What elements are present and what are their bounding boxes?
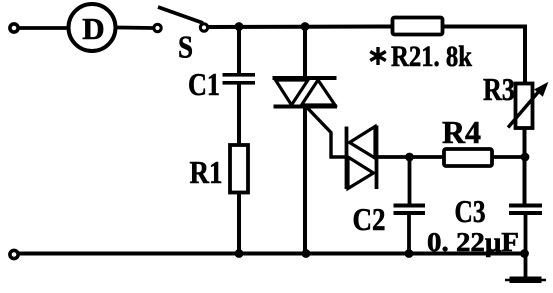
wire <box>407 215 411 254</box>
wire <box>237 27 241 74</box>
wire <box>116 26 153 30</box>
diac VD <box>347 126 377 190</box>
capacitor C2 <box>394 204 426 216</box>
wire <box>523 128 527 204</box>
capacitor C1 <box>223 73 256 85</box>
svg-text:C2: C2 <box>353 201 386 237</box>
terminal top-left <box>10 24 18 32</box>
switch S <box>154 7 208 32</box>
node junction top B <box>301 22 310 31</box>
potentiometer R3 <box>508 84 547 129</box>
svg-text:S: S <box>178 29 193 65</box>
svg-text:C1: C1 <box>188 66 220 102</box>
ground <box>505 277 546 284</box>
wire <box>523 25 527 84</box>
wire <box>524 215 528 278</box>
svg-text:D: D <box>82 11 104 46</box>
node junction bottom 4 <box>520 249 529 258</box>
svg-text:C3: C3 <box>455 193 486 229</box>
node junction bottom 3 <box>405 249 414 258</box>
load D <box>69 4 116 51</box>
wire <box>19 26 69 30</box>
resistor R4 <box>444 149 492 166</box>
node junction bottom 1 <box>235 249 244 258</box>
svg-text:R1: R1 <box>190 154 223 190</box>
wire <box>492 155 526 159</box>
wire <box>408 157 412 204</box>
resistor R2 <box>393 18 443 35</box>
wire <box>378 155 445 159</box>
node junction top A <box>235 22 244 31</box>
node junction right <box>521 153 530 162</box>
wire <box>237 193 241 254</box>
resistor R1 <box>230 145 248 193</box>
svg-text:R3: R3 <box>483 71 515 107</box>
label R2 value <box>370 40 472 73</box>
terminal bottom-left <box>10 250 18 258</box>
svg-text:R4: R4 <box>442 114 481 150</box>
node junction bottom 2 <box>302 249 311 258</box>
wire <box>443 25 527 29</box>
node junction mid <box>405 153 414 162</box>
wire gate <box>307 107 346 157</box>
capacitor C3 <box>509 204 542 216</box>
triac V <box>273 27 338 254</box>
wire bottom rail <box>18 252 525 256</box>
wire <box>237 85 241 146</box>
wire <box>208 25 393 30</box>
svg-text:R21. 8k: R21. 8k <box>391 40 472 73</box>
